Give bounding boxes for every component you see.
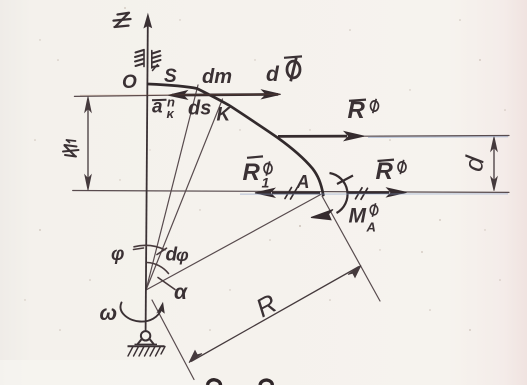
svg-text:S: S <box>164 66 177 87</box>
svg-text:A: A <box>366 220 376 235</box>
svg-text:A: A <box>296 172 310 192</box>
svg-text:φ: φ <box>111 244 124 265</box>
svg-text:R: R <box>243 159 261 186</box>
svg-text:κ: κ <box>167 106 175 121</box>
svg-text:O: O <box>122 72 137 93</box>
svg-text:dm: dm <box>202 66 232 88</box>
svg-text:ω: ω <box>100 302 118 325</box>
svg-text:d: d <box>266 63 280 86</box>
svg-text:φ: φ <box>176 245 189 265</box>
svg-text:M: M <box>349 205 367 228</box>
svg-text:α: α <box>174 281 188 304</box>
svg-text:R: R <box>376 158 394 185</box>
svg-text:ds: ds <box>188 98 211 120</box>
svg-text:K: K <box>217 105 232 126</box>
svg-text:1: 1 <box>262 175 270 191</box>
